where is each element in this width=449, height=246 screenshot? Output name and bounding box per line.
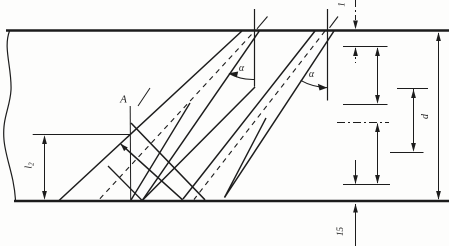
svg-text:l2: l2: [24, 162, 36, 169]
svg-text:α: α: [239, 63, 245, 74]
svg-text:1: 1: [337, 2, 347, 7]
svg-text:A: A: [119, 94, 127, 106]
svg-text:α: α: [309, 69, 315, 80]
svg-text:d: d: [420, 113, 431, 119]
svg-text:15: 15: [335, 227, 345, 237]
